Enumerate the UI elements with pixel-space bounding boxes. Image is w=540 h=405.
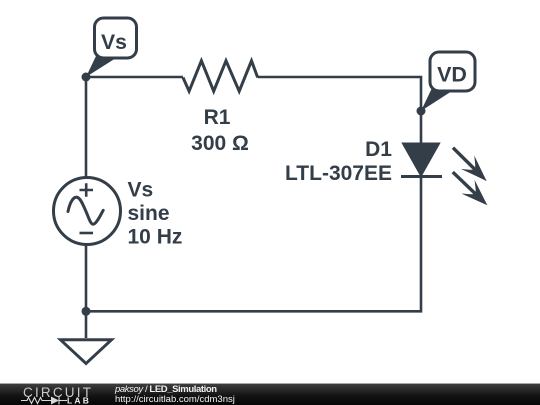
wire left vertical lower (source bottom to bottom node) — [85, 244, 88, 312]
wire top-left to resistor — [86, 76, 183, 79]
node A (top-left junction dot) — [82, 73, 91, 82]
footer title line — [115, 385, 217, 395]
LED emission arrow 2 — [446, 165, 494, 212]
svg-text:300 Ω: 300 Ω — [191, 132, 249, 155]
node bottom-left junction dot — [82, 307, 91, 316]
node VD junction dot — [417, 107, 426, 116]
ground symbol — [61, 340, 112, 364]
voltage source V1 circle — [54, 178, 121, 245]
svg-text:sine: sine — [128, 202, 170, 225]
voltage source sine waveform — [68, 197, 103, 224]
svg-text:LTL-307EE: LTL-307EE — [285, 162, 392, 185]
svg-text:LAB: LAB — [67, 396, 91, 405]
svg-text:10 Hz: 10 Hz — [128, 226, 183, 249]
CircuitLab logo — [0, 384, 100, 405]
callout Vs box — [95, 18, 137, 58]
voltage source plus sign — [80, 183, 94, 196]
wire resistor to top-right corner down to LED anode — [258, 77, 421, 144]
footer bar — [0, 383, 540, 405]
svg-text:Vs: Vs — [101, 31, 127, 54]
LED D1 cathode bar — [401, 175, 442, 178]
voltage source minus sign — [80, 232, 94, 235]
LED D1 triangle (anode) — [403, 144, 439, 176]
ground stub wire — [85, 311, 88, 338]
footer url line — [115, 395, 235, 405]
callout Vs tail — [86, 56, 116, 77]
svg-text:R1: R1 — [204, 106, 231, 129]
resistor R1 — [183, 61, 258, 91]
callout VD box — [430, 52, 475, 91]
svg-text:VD: VD — [437, 63, 467, 87]
wire LED cathode to bottom-right corner to bottom-left node — [86, 177, 421, 312]
svg-text:Vs: Vs — [128, 179, 154, 202]
svg-text:D1: D1 — [365, 138, 392, 161]
LED emission arrow 1 — [446, 141, 493, 188]
wire left vertical upper (node to source top) — [85, 77, 88, 179]
callout VD tail — [421, 88, 452, 111]
